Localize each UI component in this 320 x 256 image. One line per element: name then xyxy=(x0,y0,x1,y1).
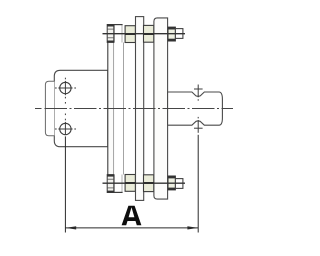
right flange plate RF xyxy=(154,18,168,199)
main centerline xyxy=(35,108,233,110)
arrowhead right xyxy=(187,226,198,229)
bottom bolt thread stub xyxy=(175,179,183,189)
bottom bolt centerline xyxy=(103,182,186,184)
setscrew hole cross (right shaft bottom) xyxy=(194,117,203,133)
bushing B1 top (pale) xyxy=(125,26,135,43)
left hub body xyxy=(54,70,108,146)
circle 2 crosshair xyxy=(55,102,76,135)
top bolt nut xyxy=(168,27,175,41)
setscrew hole cross (right shaft top) xyxy=(194,85,203,101)
bottom bolt nut xyxy=(168,176,175,190)
right hub shaft body xyxy=(168,92,223,125)
dimension line xyxy=(65,227,198,229)
bushing B2 bottom (pale) xyxy=(144,175,154,192)
top bolt head xyxy=(107,25,114,43)
left flange plate F1 xyxy=(108,25,114,193)
dimension extension line right xyxy=(197,135,199,233)
top bolt thread stub xyxy=(175,29,183,39)
bushing B2 top (pale) xyxy=(144,25,154,42)
top bolt centerline xyxy=(103,33,186,35)
S1 bottom edge xyxy=(114,191,123,193)
bushing B1 bottom (pale) xyxy=(125,175,135,192)
dimension extension line left xyxy=(64,136,66,232)
top bolt axis thick segs xyxy=(125,33,135,35)
F1 left edge xyxy=(107,25,109,193)
disc spacer S1 top block xyxy=(115,25,123,193)
left shaft stub xyxy=(45,81,54,135)
setscrew circle 1 (left hub) xyxy=(60,82,71,93)
bottom bolt axis thick segs xyxy=(125,182,135,184)
S1 top edge xyxy=(114,24,123,26)
arrowhead left xyxy=(66,226,77,229)
bottom bolt head xyxy=(107,175,114,193)
disc pack side lines xyxy=(114,43,124,175)
center plate S2 (tall) xyxy=(136,17,144,201)
dimension label A xyxy=(122,206,142,225)
circle 1 crosshair xyxy=(55,78,76,99)
setscrew circle 2 (left hub) xyxy=(60,123,71,134)
